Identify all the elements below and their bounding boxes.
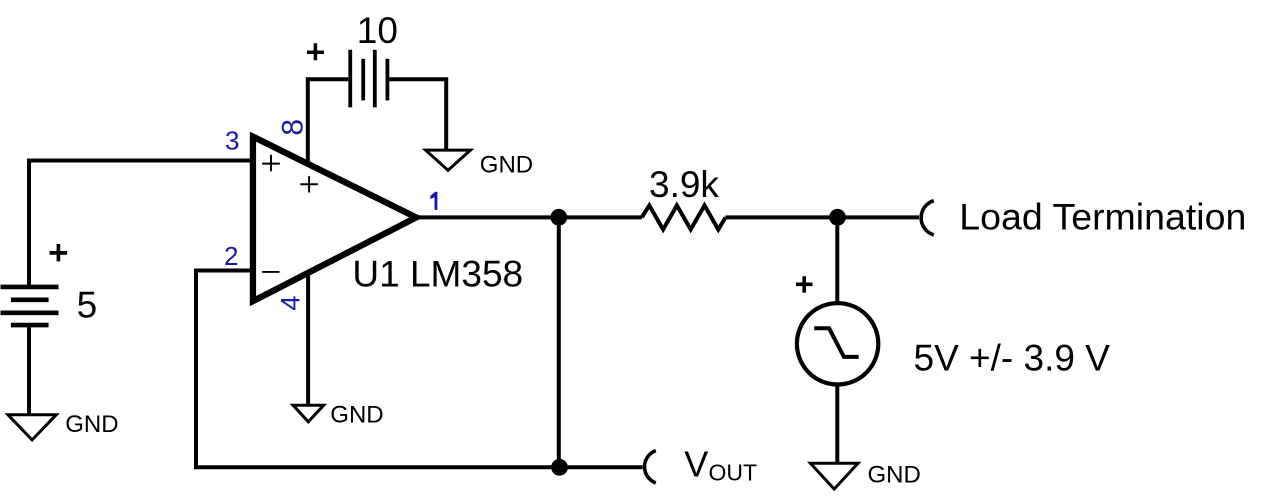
svg-text:10: 10 — [357, 10, 398, 51]
svg-text:5: 5 — [77, 284, 98, 325]
svg-text:Load Termination: Load Termination — [959, 196, 1246, 238]
svg-text:2: 2 — [224, 241, 238, 271]
svg-text:4: 4 — [276, 296, 306, 311]
svg-text:V: V — [684, 444, 708, 485]
svg-text:GND: GND — [480, 151, 533, 178]
svg-text:U1 LM358: U1 LM358 — [352, 254, 523, 295]
svg-text:OUT: OUT — [709, 460, 758, 486]
svg-text:3: 3 — [225, 126, 239, 156]
svg-text:8: 8 — [277, 119, 310, 136]
svg-text:GND: GND — [330, 402, 383, 429]
svg-text:5V +/- 3.9 V: 5V +/- 3.9 V — [914, 337, 1111, 378]
svg-text:3.9k: 3.9k — [649, 164, 719, 205]
svg-text:GND: GND — [868, 461, 921, 488]
svg-text:GND: GND — [65, 411, 118, 438]
